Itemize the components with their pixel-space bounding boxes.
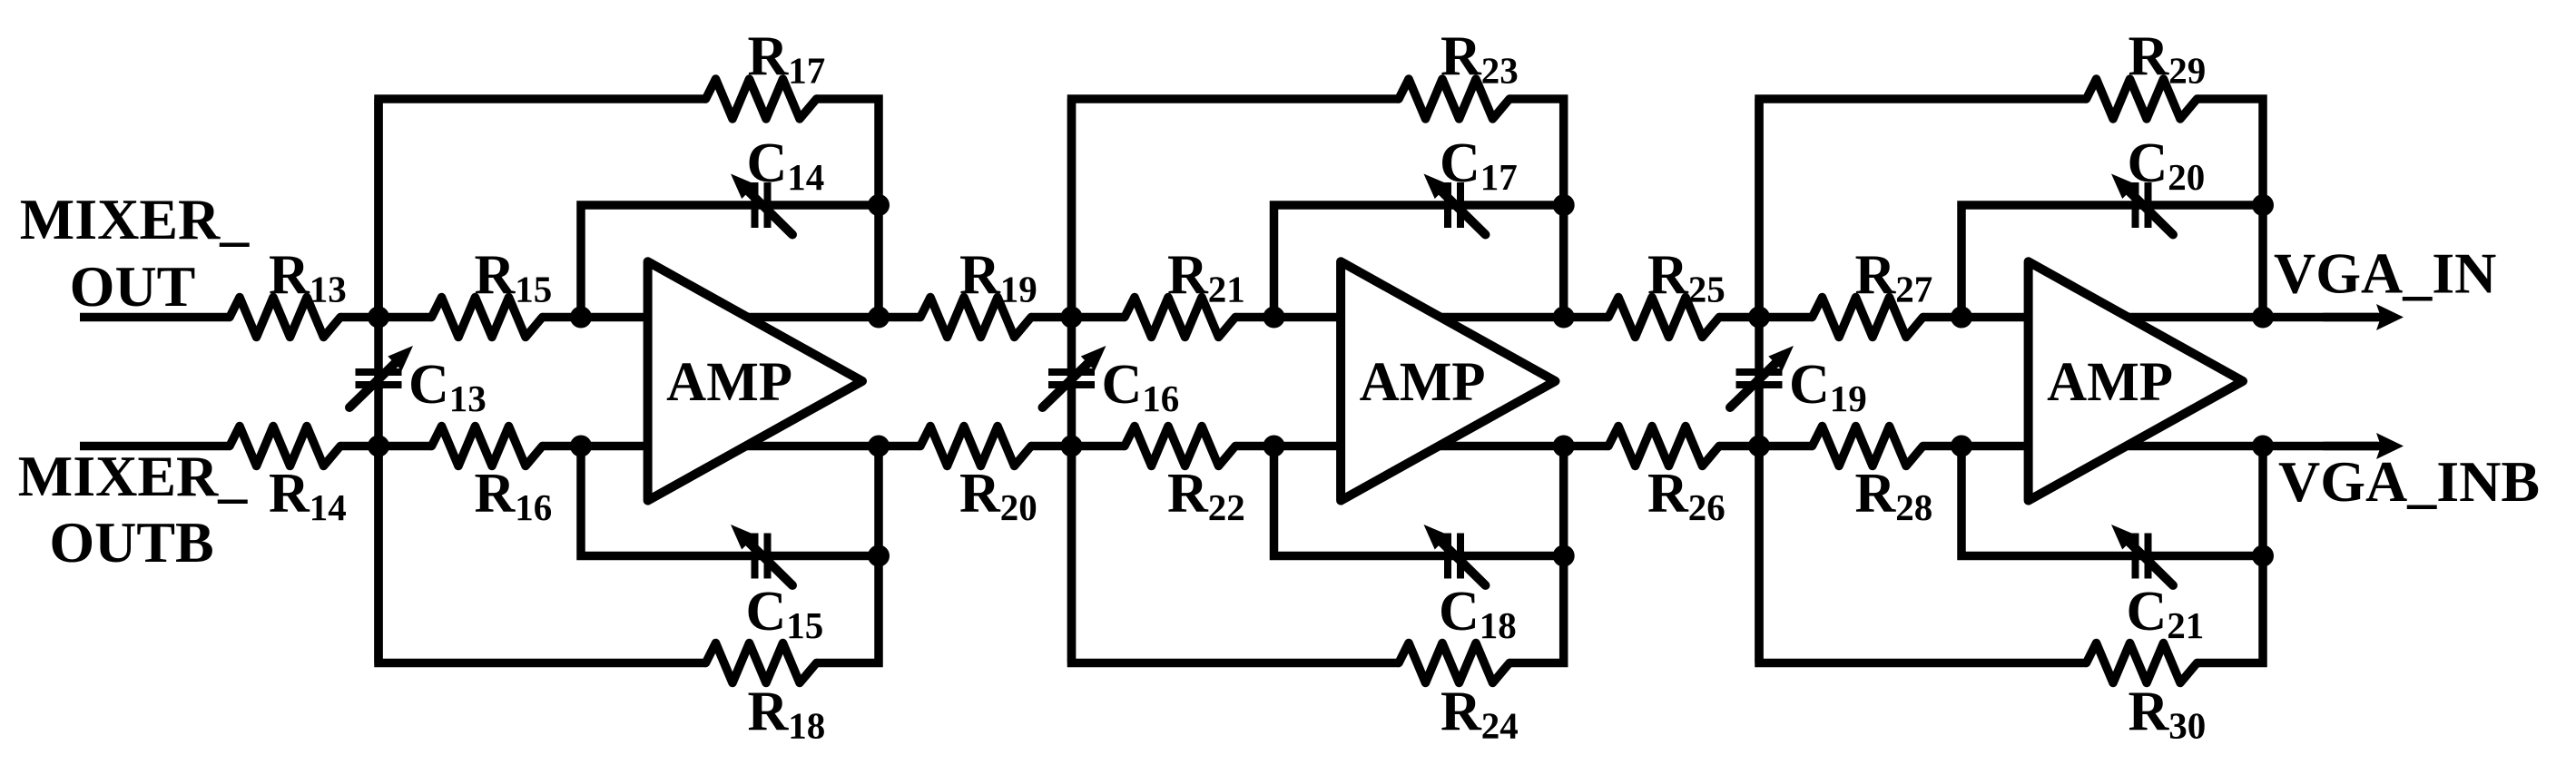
svg-text:VGA_INB: VGA_INB	[2278, 449, 2540, 514]
svg-text:MIXER_: MIXER_	[18, 444, 248, 508]
svg-text:VGA_IN: VGA_IN	[2274, 241, 2496, 306]
svg-text:OUT: OUT	[70, 254, 196, 319]
svg-text:MIXER_: MIXER_	[20, 187, 250, 251]
svg-text:OUTB: OUTB	[49, 510, 213, 574]
svg-text:AMP: AMP	[1360, 352, 1486, 413]
svg-text:AMP: AMP	[666, 352, 792, 413]
svg-text:AMP: AMP	[2047, 352, 2173, 413]
